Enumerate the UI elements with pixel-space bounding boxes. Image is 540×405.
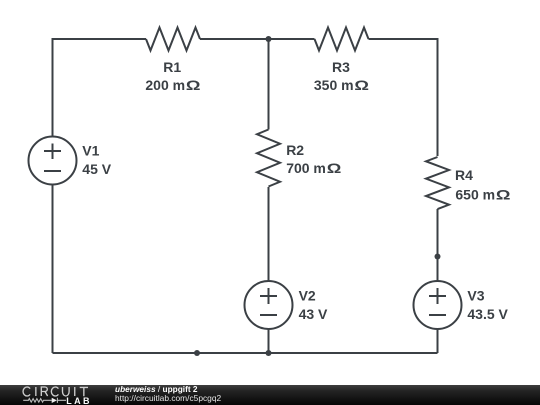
node B junction dot on right rail	[435, 254, 441, 260]
svg-text:Ω: Ω	[496, 187, 511, 203]
logo letter C	[23, 387, 30, 396]
V1 plus sign	[44, 144, 61, 160]
logo letter I	[35, 387, 37, 396]
wire middle rail top	[268, 39, 270, 130]
svg-text:350 m: 350 m	[314, 77, 354, 93]
svg-text:Ω: Ω	[354, 78, 369, 94]
svg-text:LAB: LAB	[66, 396, 92, 405]
logo diode	[52, 398, 57, 403]
resistor R3	[315, 28, 369, 51]
wire R3 to top-right corner down to R4	[369, 39, 438, 156]
resistor R2	[257, 130, 280, 187]
svg-text:200 m: 200 m	[145, 77, 185, 93]
resistor R4	[426, 157, 449, 209]
svg-text:43.5 V: 43.5 V	[467, 306, 508, 322]
footer credit line	[115, 384, 198, 394]
wire V2 to bottom rail	[268, 329, 270, 353]
wire node A to R3	[269, 38, 315, 40]
V1 minus sign	[44, 170, 61, 172]
node A junction dot	[266, 36, 272, 42]
svg-text:R2: R2	[286, 142, 304, 158]
wire left rail top and top-left segment	[53, 39, 147, 137]
wire R4 to V3	[437, 209, 439, 281]
wire R1 to node A	[200, 38, 269, 40]
svg-text:R4: R4	[455, 167, 473, 183]
logo letter C	[51, 387, 58, 396]
svg-text:43 V: 43 V	[299, 306, 328, 322]
svg-text:Ω: Ω	[186, 78, 201, 94]
logo letter T	[80, 387, 88, 396]
footer url line	[115, 393, 221, 403]
voltage source V3 circle	[414, 281, 462, 329]
svg-text:V3: V3	[467, 288, 484, 304]
wire R2 to V2	[268, 187, 270, 281]
V2 plus sign	[260, 288, 277, 304]
svg-text:Ω: Ω	[327, 161, 342, 177]
svg-text:V2: V2	[299, 288, 316, 304]
footer black bar	[0, 385, 540, 405]
junction dot bottom rail left	[194, 350, 200, 356]
wire V3 to bottom rail	[437, 329, 439, 353]
logo letter R	[41, 387, 47, 396]
voltage source V2 circle	[245, 281, 293, 329]
V2 minus sign	[260, 314, 277, 316]
junction dot bottom rail at V2	[266, 350, 272, 356]
V3 plus sign	[429, 288, 446, 304]
logo resistor squiggle	[23, 399, 52, 403]
svg-text:R3: R3	[332, 59, 350, 75]
resistor R1	[146, 28, 200, 51]
svg-text:700 m: 700 m	[286, 160, 326, 176]
svg-text:650 m: 650 m	[455, 186, 495, 202]
V3 minus sign	[429, 314, 446, 316]
CircuitLab logo	[0, 0, 110, 405]
logo letter U	[63, 387, 70, 396]
wire bottom rail	[53, 352, 438, 354]
voltage source V1 circle	[29, 137, 77, 185]
logo letter I	[74, 387, 76, 396]
wire V1 to bottom rail	[52, 185, 54, 354]
svg-text:R1: R1	[163, 59, 181, 75]
